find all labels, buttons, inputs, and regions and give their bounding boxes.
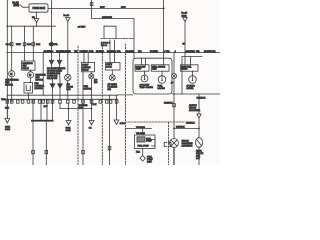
wire: x110.5 down <box>109 95 111 165</box>
svg-text:RELAY: RELAY <box>82 68 89 71</box>
wire W5b x43.2 bus to rail <box>42 53 44 96</box>
radiator fan motor M2 <box>27 72 33 78</box>
pin square x33.3 <box>32 150 35 153</box>
pin row rail upper <box>7 94 117 96</box>
ground G401 <box>66 121 71 126</box>
svg-text:BLK/YEL: BLK/YEL <box>126 51 135 53</box>
svg-text:(30A): (30A) <box>14 4 20 7</box>
wire: K1 to motor M2 <box>30 70 32 72</box>
dashed boundary x101.5 <box>101 44 103 165</box>
lamp L3 <box>109 75 115 81</box>
svg-text:CLUTCH: CLUTCH <box>84 88 93 90</box>
svg-text:BLK: BLK <box>1 99 6 101</box>
wire: box2 to G2a <box>161 71 163 76</box>
wire A4 down <box>198 118 200 138</box>
svg-text:BLK: BLK <box>136 152 140 154</box>
wire: ground feed left <box>6 95 8 118</box>
wire: rail to gauge box bottom bridge <box>118 94 134 96</box>
wire: B1 to L3 <box>111 70 113 75</box>
svg-text:BLU: BLU <box>6 44 11 46</box>
svg-text:UNIT: UNIT <box>152 69 157 71</box>
svg-text:WHT: WHT <box>121 7 126 9</box>
svg-text:BLU/BLK: BLU/BLK <box>80 51 89 53</box>
link rail y108.6 <box>59 103 61 108</box>
svg-text:BLU: BLU <box>27 44 32 46</box>
svg-text:BLK: BLK <box>5 108 10 110</box>
connector arrow A3 <box>57 60 61 64</box>
wire: rail drop x47.7 to bar <box>46 99 48 120</box>
svg-text:IND: IND <box>108 89 112 91</box>
link y128.4 right <box>174 127 199 129</box>
svg-text:M: M <box>29 73 31 77</box>
wire: drop W2 x11.7 rail to pin row <box>11 26 13 70</box>
gauge G2a circle <box>158 76 166 84</box>
wire: drop W3 x24.5 rail to relay box <box>24 26 26 61</box>
svg-text:G102: G102 <box>5 129 11 131</box>
svg-text:BLK: BLK <box>93 104 97 106</box>
pin square x45.8 <box>45 150 48 153</box>
lamp L2 <box>89 74 94 79</box>
wire: x68.5 to ground G401 <box>68 103 70 120</box>
dashed boundary x168.6 <box>168 122 170 165</box>
svg-text:BLK/YEL: BLK/YEL <box>150 51 159 53</box>
nested corner above connector row <box>104 26 116 38</box>
wire: L1 to pin row <box>67 81 69 100</box>
pin squares on rail <box>6 100 9 103</box>
radiator fan relay K1 <box>22 61 36 70</box>
connector C501 arrow <box>34 19 39 23</box>
wire: fuel pump box down <box>142 149 144 156</box>
dashed top of bottom assembly <box>126 121 186 123</box>
svg-text:FUEL PUMP: FUEL PUMP <box>138 146 150 148</box>
gauge G1a circle <box>141 75 148 82</box>
shock absorber actuator M3 <box>170 139 179 148</box>
dashed connector row <box>101 38 133 40</box>
ground G101 <box>5 119 10 124</box>
wire W6: x91.6 corner to x134 <box>92 0 134 58</box>
svg-text:GRN/BLK: GRN/BLK <box>197 97 206 99</box>
wire: rail drop x33.3 to bar <box>32 99 34 120</box>
pin square x110.5 <box>108 147 111 150</box>
svg-text:BRN/BLK: BRN/BLK <box>186 123 195 125</box>
pin square W2 <box>10 43 13 46</box>
svg-text:IND: IND <box>94 82 98 84</box>
wire: M1 to pin row <box>11 77 13 102</box>
wire: box1 to G1a <box>144 71 146 75</box>
dashed boundary x78 <box>77 46 79 165</box>
svg-text:RELAY: RELAY <box>23 67 30 70</box>
pin square W3 <box>23 43 26 46</box>
svg-text:UNIT: UNIT <box>147 162 152 164</box>
svg-text:TEMP GAUGE: TEMP GAUGE <box>140 86 154 89</box>
svg-text:(10A): (10A) <box>182 15 187 18</box>
ground G1 <box>89 121 94 126</box>
wire: bus to A3 <box>59 53 61 61</box>
wire W7: x164 from top to gauge box <box>163 0 165 65</box>
svg-text:YEL/GRN: YEL/GRN <box>136 133 145 135</box>
wire: rail drop x39.5 to bar <box>40 99 42 120</box>
wire: rail drop x54.5 to bar <box>52 99 54 120</box>
svg-text:BLK/YEL: BLK/YEL <box>96 51 105 53</box>
svg-text:WHT: WHT <box>16 44 22 46</box>
wire x174 lower <box>173 94 175 139</box>
small lamp L4 <box>173 53 175 94</box>
wire x199 upper <box>198 94 200 114</box>
svg-text:4: 4 <box>115 51 116 53</box>
gauge box2 <box>151 65 169 71</box>
wire: M2 to relay box K2 <box>30 78 32 83</box>
wire below A3 <box>59 65 62 84</box>
wire: drop W4 x33.3 rail to relay box <box>32 26 34 61</box>
gauge assembly box <box>133 58 172 94</box>
wire: T2 to pin row <box>59 88 61 99</box>
wire: fuse box to connector C501 <box>36 12 38 18</box>
svg-text:MOTOR: MOTOR <box>36 80 44 82</box>
inline connector on dashed edge <box>164 142 167 146</box>
wire below A2 <box>52 65 53 84</box>
svg-text:M: M <box>10 72 12 76</box>
svg-text:ACTUATOR: ACTUATOR <box>182 145 193 148</box>
node: tee of rail and W1 <box>6 25 8 27</box>
pin square W5 <box>50 43 53 46</box>
meter box B1 <box>106 63 121 71</box>
wire: fuse label leader <box>21 5 30 7</box>
harness arrow filled T1 <box>50 84 55 88</box>
relay box K2 <box>24 83 33 94</box>
svg-text:4: 4 <box>164 51 165 53</box>
wire: x91.5 to ground G1 <box>90 79 92 121</box>
svg-text:MODULE: MODULE <box>35 88 44 90</box>
svg-text:YEL/GRN: YEL/GRN <box>136 127 145 129</box>
wire: K2 to rail <box>28 93 30 99</box>
link y128.4 left <box>126 127 152 129</box>
svg-text:MOTOR: MOTOR <box>5 85 13 87</box>
pin square on x174 <box>173 104 176 107</box>
svg-text:RELAY SW: RELAY SW <box>47 77 57 80</box>
svg-text:GAUGE: GAUGE <box>158 87 166 90</box>
wire: main left feed W1 (top to ground G101) <box>6 0 8 119</box>
svg-text:PUMP: PUMP <box>146 141 152 143</box>
svg-text:GRN/ORN: GRN/ORN <box>102 17 112 19</box>
gauge right section partial box <box>182 57 202 94</box>
svg-text:BLK: BLK <box>79 108 83 110</box>
svg-text:WARN: WARN <box>181 68 188 71</box>
svg-text:LOCK: LOCK <box>106 67 112 69</box>
wire: C2 down to bus <box>184 22 186 53</box>
ground G402 <box>114 120 119 125</box>
wire: into gauge box1 <box>141 58 143 65</box>
pin mark top W6 <box>90 3 93 6</box>
wire: T1 to pin row <box>52 88 54 99</box>
svg-text:BLU/RED: BLU/RED <box>62 51 71 53</box>
svg-text:No.18: No.18 <box>64 15 70 17</box>
wire: box3 to G3a <box>192 71 194 76</box>
pin square W4 <box>32 43 35 46</box>
svg-text:WHT: WHT <box>100 7 105 9</box>
svg-text:+B WHT: +B WHT <box>78 26 87 28</box>
fuel pump box <box>135 135 156 149</box>
svg-text:5C: 5C <box>32 17 35 19</box>
svg-text:BLK: BLK <box>36 44 41 46</box>
svg-text:BLK/YEL: BLK/YEL <box>44 51 53 53</box>
box K3 <box>82 62 95 71</box>
wire: M3 to bottom (thick) <box>173 147 175 165</box>
wire: drop to fuel pump box <box>142 128 144 135</box>
svg-text:4: 4 <box>52 51 53 53</box>
junction bar <box>31 120 54 122</box>
gauge G3a circle <box>189 76 197 84</box>
svg-text:BRN/BLK: BRN/BLK <box>164 102 173 104</box>
wire: M4 down <box>198 147 200 165</box>
svg-text:METER: METER <box>187 88 195 90</box>
wire: bus to box3 <box>184 53 186 65</box>
svg-text:No.15: No.15 <box>182 13 188 15</box>
svg-text:BLU: BLU <box>67 89 71 91</box>
long feed line y8.4 <box>48 7 164 9</box>
svg-text:BLK/YEL: BLK/YEL <box>49 44 59 46</box>
pin row rail lower <box>5 98 118 100</box>
wire: horizontal rail from fuse area y26 <box>7 25 55 27</box>
svg-text:G402: G402 <box>66 130 72 132</box>
gauge box3 <box>181 65 199 71</box>
svg-text:G402: G402 <box>120 123 126 125</box>
svg-text:TEMP: TEMP <box>136 69 142 71</box>
connector arrow A4 <box>197 114 201 118</box>
wire: x116.5 to ground G402 <box>116 95 118 120</box>
svg-text:4: 4 <box>175 51 176 53</box>
wire: C502 down to lamp L1 <box>67 22 69 75</box>
main bus y52.6 <box>7 52 220 54</box>
wire: bus to box K3 right <box>87 53 89 63</box>
wire: bar to bottom x33.3 <box>32 122 34 165</box>
diamond D1 <box>140 156 145 162</box>
dashed boundary x125 <box>125 44 127 165</box>
fuse box F1 <box>29 4 48 12</box>
gauge box bottom extension <box>172 93 220 95</box>
wire W5 x51.5 from top <box>51 0 53 60</box>
wire: K3 left leg down <box>82 72 84 165</box>
svg-text:BRN/BLK: BRN/BLK <box>176 127 185 129</box>
wires into meter box <box>109 40 111 63</box>
svg-text:BLK/YEL: BLK/YEL <box>187 51 196 53</box>
harness arrow filled T2 <box>58 84 63 88</box>
svg-text:FUSE BOX: FUSE BOX <box>33 7 46 10</box>
gauge box1 <box>135 65 149 71</box>
wire: bar to bottom x45.8 <box>45 122 47 165</box>
condenser fan motor M1 <box>9 71 15 77</box>
actuator oval M4 <box>195 138 202 148</box>
pin square x84 <box>82 150 85 153</box>
wire: bus to box K3 left <box>83 53 85 63</box>
wire: K3 to lamp L2 <box>90 72 92 74</box>
wire: connector to rail <box>36 23 38 27</box>
svg-text:BLK/YEL: BLK/YEL <box>107 51 116 53</box>
lamp L1 <box>65 74 71 80</box>
connector arrow A2 <box>49 60 53 64</box>
